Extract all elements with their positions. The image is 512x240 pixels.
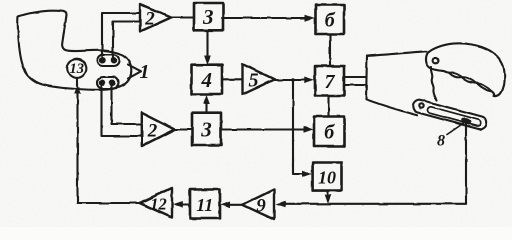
finger pivot bbox=[433, 58, 438, 63]
finger inner bead line bbox=[444, 71, 494, 96]
svg-text:13: 13 bbox=[70, 61, 85, 77]
svg-text:10: 10 bbox=[318, 168, 336, 188]
wire 3bottom to 6bottom bbox=[221, 128, 305, 130]
svg-text:5: 5 bbox=[249, 70, 259, 92]
wire 4 to 5 bbox=[222, 78, 243, 80]
svg-text:б: б bbox=[324, 122, 335, 144]
svg-text:1: 1 bbox=[140, 61, 150, 83]
pointer for label 8 bbox=[447, 123, 465, 135]
svg-text:9: 9 bbox=[256, 196, 266, 217]
svg-text:2: 2 bbox=[144, 9, 155, 30]
feedback bus wire to 9 bbox=[284, 203, 467, 205]
block 7 bbox=[315, 66, 344, 96]
block 3 (top) bbox=[194, 3, 223, 30]
svg-text:7: 7 bbox=[325, 71, 336, 93]
wire 5 to 7 bbox=[275, 79, 307, 81]
svg-text:3: 3 bbox=[200, 117, 212, 141]
svg-text:4: 4 bbox=[200, 68, 212, 92]
block 11 bbox=[190, 190, 220, 219]
wire 3top down to 4 bbox=[206, 31, 208, 56]
svg-text:б: б bbox=[325, 10, 336, 32]
thumb sensor blob bbox=[461, 117, 472, 125]
wire junction down to 10 bbox=[293, 80, 304, 174]
amplifier 5 bbox=[243, 64, 275, 94]
block 4 bbox=[192, 65, 223, 94]
block 3 (bottom) bbox=[192, 113, 221, 145]
wire 3bottom up to 4 bbox=[205, 103, 207, 113]
wire 11 to 12 bbox=[181, 203, 190, 205]
wire thumb sensor down to bus bbox=[465, 124, 467, 204]
svg-text:2: 2 bbox=[147, 121, 158, 142]
block 7 to hand double wire bbox=[344, 76, 367, 78]
wire 10 down to feedback bus bbox=[327, 191, 329, 196]
wire electrode-bottom to amplifier 2 bottom (two leads) bbox=[102, 86, 142, 136]
feedback wire 12 to stump bbox=[78, 92, 140, 203]
stump outline bbox=[18, 11, 132, 90]
wire circle13 stub bbox=[76, 78, 78, 86]
thumb inner slot bbox=[427, 106, 482, 127]
block 10 bbox=[313, 163, 342, 191]
hand palm bbox=[367, 51, 427, 56]
hand fingers outline bbox=[426, 43, 505, 96]
svg-text:8: 8 bbox=[437, 133, 445, 150]
wire electrode-top to amplifier 2 top (two leads) bbox=[102, 13, 140, 56]
amplifier 9 bbox=[243, 190, 275, 220]
wire 3top to 6top bbox=[222, 17, 307, 19]
junction on wire 5-7 bbox=[291, 78, 295, 82]
wire 9 to 11 bbox=[228, 204, 243, 206]
node 13 feedback stimulator circle bbox=[67, 59, 86, 78]
block 6 (bottom) bbox=[314, 117, 345, 147]
wire 2top to 3top bbox=[171, 16, 194, 18]
svg-text:12: 12 bbox=[150, 195, 167, 214]
electrode pair bottom bbox=[97, 77, 119, 89]
wire 2bottom to 3bottom bbox=[175, 128, 193, 130]
svg-text:11: 11 bbox=[196, 195, 213, 215]
thumb outline bbox=[411, 98, 488, 130]
electrode pair top bbox=[98, 55, 120, 67]
amplifier 2 (top) bbox=[140, 4, 171, 32]
pointer for label 1 bbox=[128, 65, 141, 79]
amplifier 12 bbox=[140, 188, 173, 218]
block 6 (top) bbox=[316, 5, 345, 35]
svg-text:3: 3 bbox=[202, 5, 214, 29]
amplifier 2 (bottom) bbox=[142, 113, 175, 146]
wire 7 down to 6bottom bbox=[327, 96, 329, 117]
thumb pivot bbox=[419, 103, 423, 107]
palm right edge zigzag bbox=[431, 67, 437, 100]
wire 6top down to 7 bbox=[329, 34, 331, 66]
